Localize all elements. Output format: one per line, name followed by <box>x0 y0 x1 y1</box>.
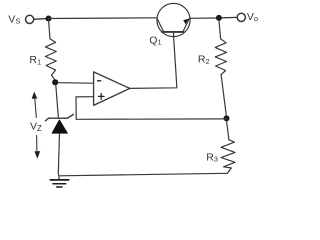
wire op-amp output to Q1 base <box>130 37 177 89</box>
resistor R3 <box>221 140 235 168</box>
resistor R1 <box>45 39 56 75</box>
junction dot Vo node <box>216 15 222 21</box>
wire top rail to Q1 collector <box>49 17 157 20</box>
wire zener to ground <box>58 133 59 179</box>
wire R3 to ground rail <box>227 168 231 173</box>
zener diode Vz cathode bar <box>45 114 73 121</box>
ground <box>50 180 68 187</box>
op-amp U1 <box>94 72 130 106</box>
zener diode Vz anode triangle <box>52 120 67 133</box>
junction dot feedback node B <box>224 115 230 121</box>
wire R1 to reference node <box>52 75 55 80</box>
wire Vo node to terminal <box>222 16 237 18</box>
wire Vo node down to R2 <box>219 21 221 39</box>
wire Vs terminal to junction <box>34 18 46 21</box>
wire feedback node to op-amp non-inverting input <box>76 97 227 120</box>
terminal Vs <box>26 15 34 23</box>
transistor Q1 <box>157 3 190 36</box>
wire node A to op-amp inverting input <box>58 82 94 85</box>
Vz annotation arrow <box>32 92 40 158</box>
wire feedback node down to R3 <box>227 121 229 139</box>
junction dot reference node A <box>52 79 58 85</box>
wire Vs node down to R1 <box>49 21 50 39</box>
terminal Vo <box>237 13 245 21</box>
resistor R2 <box>215 39 226 75</box>
wire node A down to zener <box>56 85 59 118</box>
wire bottom ground rail <box>60 173 228 176</box>
wire R2 to feedback node <box>221 75 226 116</box>
wire Q1 emitter to Vo node <box>190 17 216 19</box>
junction dot Vs node <box>46 16 52 22</box>
